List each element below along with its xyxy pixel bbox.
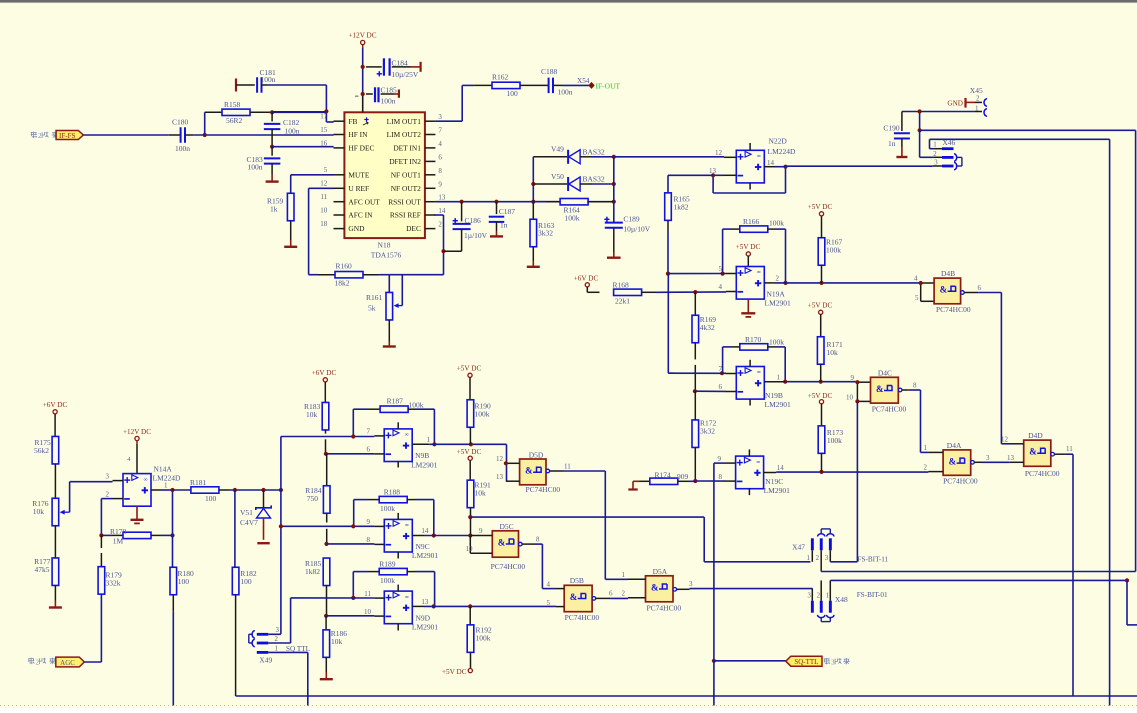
label D5A (653, 567, 668, 576)
wire D4D out to bottom bus (1072, 454, 1074, 696)
junction RSSI/C186 (460, 200, 464, 204)
svg-text:&: & (525, 466, 533, 476)
label D5D (529, 450, 544, 459)
op-amp N19B LM2901 (726, 360, 785, 406)
resistor R166 100k (723, 217, 786, 232)
svg-text:100: 100 (240, 577, 252, 586)
svg-text:100k: 100k (380, 576, 395, 585)
pin number 13 (N22D) (709, 167, 717, 175)
svg-text:1k82: 1k82 (674, 202, 689, 211)
junction +12V/C184 (361, 65, 365, 69)
svg-text:6: 6 (719, 383, 723, 391)
svg-text:NF OUT1: NF OUT1 (391, 170, 421, 179)
pin number 13 (D5D) (496, 473, 504, 481)
nand gate D5D PC74HC00 (506, 459, 546, 485)
pin number 9 (D4C) (851, 374, 855, 382)
svg-text:100: 100 (507, 89, 519, 98)
junction D4C pin10 (855, 399, 859, 403)
resistor R190 100k (467, 377, 491, 444)
wire signal riser to N19B pin7 (668, 274, 674, 374)
wire D4D output (1051, 452, 1073, 456)
wire diode net to N22D pin12 (614, 156, 724, 158)
wire R170 right riser (784, 347, 786, 382)
junction V50 right (612, 182, 616, 186)
svg-text:100k: 100k (565, 213, 580, 222)
svg-text:100n: 100n (558, 87, 573, 96)
svg-text:R166: R166 (743, 217, 760, 226)
wire N22D feedback loop (713, 167, 785, 193)
text SQ TTL (286, 645, 310, 653)
junction +12V/C185 (361, 92, 365, 96)
pin number 1 (D5A) (622, 571, 626, 579)
junction R188/pin9 (351, 524, 355, 528)
svg-text:2: 2 (275, 636, 279, 643)
svg-text:8: 8 (438, 167, 442, 175)
svg-text:12: 12 (320, 180, 328, 188)
wire RSSI OUT pin13 net (435, 201, 613, 203)
pin number 11 (N9D) (364, 590, 371, 598)
svg-text:13: 13 (496, 473, 504, 481)
label LM2901 (N9D) (412, 623, 439, 632)
power +6V DC (R183) (312, 369, 337, 382)
svg-text:&: & (570, 592, 578, 602)
net name FS-BIT-11 (858, 556, 889, 564)
svg-text:D5A: D5A (653, 567, 668, 576)
pin number 11 (D4D) (1066, 445, 1073, 453)
svg-text:X48: X48 (835, 595, 848, 604)
svg-text:8: 8 (367, 536, 371, 544)
resistor R179 332k (98, 535, 122, 594)
svg-text:C190: C190 (883, 124, 900, 133)
svg-text:N18: N18 (378, 241, 391, 250)
capacitor C187 1n (489, 202, 516, 232)
junction R178 right (170, 533, 174, 537)
svg-text:R178: R178 (110, 527, 127, 536)
svg-text:1: 1 (164, 482, 168, 490)
wire N9B pin6 horizontal (326, 453, 374, 455)
svg-text:FS-BIT-01: FS-BIT-01 (857, 591, 888, 599)
resistor R160 18k2 (318, 261, 379, 287)
wire D4B output (961, 291, 1002, 295)
wire N9C out to D5C (424, 535, 470, 537)
svg-text:100n: 100n (261, 75, 276, 84)
junction V51 top (261, 488, 265, 492)
svg-text:1µ/10V: 1µ/10V (464, 231, 488, 240)
svg-text:2: 2 (776, 275, 780, 283)
junction R173/N19C out net (819, 470, 823, 474)
svg-text:N14A: N14A (154, 464, 173, 473)
junction C181 riser / R158 net (324, 109, 328, 113)
wire D5B output (592, 597, 628, 601)
ground under N19A (741, 299, 755, 317)
pin number 14 (N22D) (767, 159, 775, 167)
label N9C (416, 542, 430, 551)
nand gate D4A PC74HC00 (928, 450, 970, 475)
svg-text:14: 14 (767, 159, 775, 167)
resistor R183 10k (304, 382, 329, 454)
pin number 4 (D5B) (547, 581, 551, 589)
wire N22D output to X46 pin3 (775, 165, 933, 168)
svg-text:N22D: N22D (769, 137, 788, 146)
svg-text:1M: 1M (113, 537, 124, 546)
pin number 6 (D5B) (609, 590, 613, 598)
svg-text:∞: ∞ (144, 477, 148, 483)
label D5B (570, 576, 584, 585)
ground under R159 (284, 240, 297, 247)
svg-text:+5V DC: +5V DC (457, 448, 482, 456)
net name IF-OUT (596, 82, 621, 91)
svg-text:909: 909 (677, 472, 689, 481)
svg-text:100: 100 (205, 494, 217, 503)
svg-text:BAS32: BAS32 (583, 175, 605, 184)
junction R165/pin5 net (666, 272, 670, 276)
svg-text:12: 12 (496, 455, 504, 463)
wire R166 left riser (722, 229, 724, 274)
svg-text:GND: GND (947, 99, 963, 107)
svg-text:DET IN1: DET IN1 (393, 144, 421, 153)
wire N19B output net (785, 381, 858, 383)
svg-text:2: 2 (438, 221, 442, 229)
CJK note sheet2 (top) (31, 132, 59, 141)
junction R178 left (99, 533, 103, 537)
pin number 14 (N19C) (777, 464, 785, 472)
svg-text:C185: C185 (381, 85, 398, 94)
power +6V DC (R175) (43, 401, 68, 414)
svg-text:C186: C186 (465, 216, 482, 225)
svg-text:22k1: 22k1 (615, 297, 630, 306)
resistor R175 56k2 (34, 414, 59, 498)
wire D5C input tie (469, 536, 471, 554)
pin number 9 (N9C) (367, 518, 371, 526)
wire R166 right riser (785, 229, 787, 283)
svg-text:5k: 5k (368, 304, 376, 313)
pin number 4 (N14A vcc) (127, 456, 131, 463)
svg-text:2: 2 (36, 659, 40, 666)
svg-text:1: 1 (826, 592, 829, 599)
wire right bus exit (1127, 580, 1137, 625)
capacitor C180 100n (169, 118, 194, 153)
wire ref to N9B pin7 (281, 436, 374, 438)
label PC74HC00 (D4D) (1025, 469, 1060, 478)
junction N22D output (783, 165, 787, 169)
label LM2901 (N19A) (765, 299, 792, 308)
wire pin9 from bottom net (714, 463, 726, 661)
op-amp N9C LM2901 (374, 513, 424, 559)
svg-text:9: 9 (367, 518, 371, 526)
svg-text:D4A: D4A (947, 441, 962, 450)
wire MUTE pin5 (291, 175, 334, 193)
wire pin6 horizontal (695, 390, 726, 392)
junction N14A output (170, 488, 174, 492)
resistor R186 10k (323, 616, 347, 672)
svg-text:PC74HC00: PC74HC00 (565, 613, 600, 622)
nand gate D5A PC74HC00 (628, 576, 673, 602)
svg-text:10µ/25V: 10µ/25V (392, 70, 419, 79)
svg-text:PC74HC00: PC74HC00 (936, 305, 971, 314)
label PC74HC00 (D4A) (943, 476, 978, 485)
svg-text:1n: 1n (888, 139, 896, 148)
wire SQ-TTL to port (714, 660, 786, 662)
svg-text:1: 1 (622, 571, 626, 579)
wire D4C output (898, 388, 928, 452)
wire R161 net to pin14 riser (389, 251, 443, 305)
capacitor C184 10u/25V (366, 58, 421, 79)
svg-text:3: 3 (106, 472, 110, 480)
svg-text:1: 1 (975, 104, 979, 112)
wire AGC to R179 (84, 594, 101, 662)
svg-text:R158: R158 (224, 100, 241, 109)
label LM2901 (N19B) (765, 400, 792, 409)
pin number 3 (N14A) (106, 472, 110, 480)
svg-text:D5D: D5D (529, 450, 544, 459)
label PC74HC00 (D4B) (936, 305, 971, 314)
svg-text:3: 3 (808, 592, 812, 599)
junction RSSI/C189 (612, 200, 616, 204)
svg-text:+5V DC: +5V DC (808, 203, 833, 211)
svg-text:C4V7: C4V7 (240, 518, 258, 527)
svg-text:∞: ∞ (405, 523, 409, 529)
svg-text:3: 3 (825, 555, 829, 562)
junction R172/R174/pin8 (693, 479, 697, 483)
pin number 1 (N9B) (427, 436, 431, 444)
pin number 8 (N19C) (719, 473, 723, 481)
svg-text:C180: C180 (172, 118, 189, 127)
power +5V DC (R173) (808, 392, 833, 404)
label LM2901 (N19C) (764, 486, 791, 495)
capacitor C190 1n (883, 112, 910, 158)
pin number 1 (N14A) (164, 482, 168, 490)
junction SQ-TTL branch (712, 659, 716, 663)
wire RSSI REF pin14 riser (434, 215, 443, 251)
capacitor C189 10u/10V (polar) (604, 215, 651, 258)
wire pin8 horizontal (695, 480, 726, 482)
junction R170/pin7 (720, 371, 724, 375)
svg-text:12: 12 (1001, 435, 1009, 443)
wire R168 to N19A pin4 (656, 291, 726, 293)
wire N9B out to D5D (429, 444, 506, 481)
svg-text:U REF: U REF (348, 184, 369, 193)
svg-text:14: 14 (421, 527, 429, 535)
port IF-FS (56, 131, 83, 140)
svg-text:5: 5 (324, 166, 328, 174)
svg-text:R181: R181 (190, 478, 207, 487)
junction R166/output N19A (783, 281, 787, 285)
wire R188 left riser (353, 500, 355, 527)
label N18 (378, 241, 391, 250)
pin number 11 (D5D) (564, 462, 571, 470)
wire X49 pin1 out (268, 652, 308, 705)
label N19B (765, 391, 783, 400)
capacitor C182 100n (264, 112, 300, 146)
wire comparator ref riser (280, 437, 282, 634)
label D5C (500, 522, 514, 531)
connector X49 (249, 627, 280, 665)
ground left of R174 (628, 481, 639, 489)
svg-text:47k5: 47k5 (35, 565, 50, 574)
svg-text:D4C: D4C (878, 368, 892, 377)
label N19C (765, 477, 783, 486)
wire ref to N9C pin9 (281, 525, 375, 527)
pin number 2 (D5A) (622, 589, 626, 597)
svg-text:18k2: 18k2 (335, 279, 350, 288)
junction R189/output N9D (432, 604, 436, 608)
pin number 13 (D4D) (1007, 454, 1015, 462)
pin number 8 (D4C) (913, 382, 917, 390)
wire bottom bus (236, 695, 1137, 697)
svg-text:10k: 10k (33, 507, 45, 516)
nand gate D4B PC74HC00 (934, 278, 961, 304)
junction R158/C180 net (203, 133, 207, 137)
junction D5C pin9 tie (468, 533, 472, 537)
wire IF-FS to C180 (83, 134, 169, 136)
wire R165 to pin13 (668, 174, 713, 176)
wire N9D out to D5B pin5 (424, 605, 556, 607)
svg-text:R168: R168 (613, 281, 630, 290)
wire diode right riser (613, 157, 615, 222)
wire R182 riser (234, 490, 236, 567)
svg-text:10k: 10k (475, 488, 487, 497)
pin number 7 (N9B) (367, 428, 371, 436)
svg-text:AGC: AGC (60, 659, 75, 667)
svg-text:PC74HC00: PC74HC00 (647, 604, 682, 613)
resistor R184 750 (305, 454, 330, 544)
svg-text:LIM OUT1: LIM OUT1 (387, 117, 422, 126)
wire X49 pin3 to ref riser (268, 633, 281, 635)
label N14A (154, 464, 173, 473)
ground under V51 (257, 542, 269, 544)
svg-text:AFC IN: AFC IN (348, 211, 373, 220)
wire +6V to R168 (587, 287, 599, 292)
resistor R170 100k (723, 335, 786, 350)
resistor R187 100k (353, 397, 434, 413)
power +12V DC (N14A) (123, 428, 151, 441)
junction R189/pin11 (351, 596, 355, 600)
junction R192 top (468, 604, 472, 608)
wire inner right-edge bus (1109, 139, 1111, 705)
junction pin14/C186 bottom (441, 249, 445, 253)
svg-text:MUTE: MUTE (348, 170, 369, 179)
resistor R185 1k82 (305, 558, 330, 616)
svg-text:9: 9 (438, 180, 442, 188)
svg-text:2: 2 (817, 592, 821, 599)
pin number 9 (D5C) (479, 527, 483, 535)
svg-text:1k82: 1k82 (305, 567, 320, 576)
connector X47 (792, 529, 834, 572)
svg-text:+12V DC: +12V DC (123, 428, 151, 436)
wire D4C inputs to X47 pin3 (856, 401, 858, 561)
svg-text:15: 15 (320, 126, 328, 134)
wire R187 right riser (433, 409, 435, 444)
wire V50 to junction (592, 183, 614, 185)
resistor R173 100k (818, 404, 843, 472)
svg-text:PC74HC00: PC74HC00 (943, 476, 978, 485)
wire HF DEC pin16 (272, 146, 334, 148)
svg-text:100n: 100n (248, 163, 263, 172)
svg-text:1: 1 (427, 436, 431, 444)
svg-text:R174: R174 (655, 470, 672, 479)
resistor R159 1k (267, 193, 294, 240)
svg-text:4: 4 (914, 275, 918, 283)
op-amp N9D LM2901 (374, 585, 424, 631)
svg-text:2: 2 (38, 133, 42, 140)
svg-text:1: 1 (807, 555, 810, 562)
svg-text:1: 1 (275, 645, 278, 652)
wire LIM OUT1 pin3 to R162 (435, 85, 474, 121)
svg-text:+5V DC: +5V DC (808, 392, 833, 400)
resistor R191 10k (467, 460, 491, 535)
svg-text:10k: 10k (331, 637, 343, 646)
svg-text:100k: 100k (380, 504, 395, 513)
svg-text:3: 3 (986, 454, 990, 462)
svg-text:LM2901: LM2901 (764, 486, 791, 495)
ground under R186 (320, 672, 333, 679)
pin number 12 (D4D) (1001, 435, 1009, 443)
svg-text:FS-BIT-11: FS-BIT-11 (858, 556, 889, 564)
wire SQ-TTL riser lower (713, 661, 715, 706)
svg-text:+5V DC: +5V DC (808, 302, 833, 310)
wire R170 left riser (722, 347, 724, 373)
pin number 5 (D4B) (915, 294, 919, 302)
pin number 5 (D5B) (547, 599, 551, 607)
wire diode ladder left riser (532, 157, 534, 202)
power +12V DC (top) (348, 32, 376, 45)
svg-text:LM224D: LM224D (768, 147, 797, 156)
junction R190/out net (469, 442, 473, 446)
capacitor C181 100n (236, 68, 276, 93)
svg-text:R161: R161 (366, 293, 383, 302)
svg-text:9: 9 (718, 455, 722, 463)
wire pin5 horizontal (668, 273, 726, 275)
junction ref/N9C pin9 wire (279, 524, 283, 528)
wire N14A output riser (162, 490, 173, 567)
svg-text:R187: R187 (387, 397, 404, 406)
svg-text:1k: 1k (270, 205, 278, 214)
op-amp N19C LM2901 (726, 449, 776, 495)
pin number 5 (N19A) (719, 265, 723, 273)
wire D4A output (971, 461, 1010, 465)
svg-text:RSSI REF: RSSI REF (390, 211, 421, 220)
svg-text:HF IN: HF IN (348, 130, 368, 139)
pin number 8 (N9C) (367, 536, 371, 544)
CJK note sheet3 (824, 658, 850, 667)
svg-text:8: 8 (913, 382, 917, 390)
wire X48 pin1 to right bus (830, 579, 1129, 581)
capacitor C185 100n (355, 85, 399, 105)
svg-text:PC74HC00: PC74HC00 (1025, 469, 1060, 478)
ground under C183 (266, 175, 279, 182)
label PC74HC00 (D5C) (491, 562, 526, 571)
svg-text:∞: ∞ (757, 154, 761, 160)
nand gate D5B PC74HC00 (556, 585, 592, 611)
svg-text:8: 8 (719, 473, 723, 481)
diode V50 BAS32 (533, 172, 605, 191)
svg-text:6: 6 (367, 446, 371, 454)
label TDA1576 (371, 251, 402, 260)
pin number 3 (D5A) (689, 580, 693, 588)
label PC74HC00 (D5D) (526, 485, 561, 494)
svg-text:NF OUT2: NF OUT2 (391, 184, 421, 193)
svg-text:1: 1 (933, 142, 936, 149)
junction V50 left (531, 182, 535, 186)
wire R158 left leg (204, 112, 206, 135)
svg-text:&: & (651, 582, 659, 592)
svg-text:3: 3 (276, 627, 280, 634)
wire R189 left riser (352, 572, 354, 598)
wire N19C output to D4A pin2 (776, 471, 928, 473)
wire X47 pin3 to D4C (830, 561, 857, 563)
svg-text:6: 6 (978, 284, 982, 292)
svg-text:X54: X54 (577, 77, 590, 85)
